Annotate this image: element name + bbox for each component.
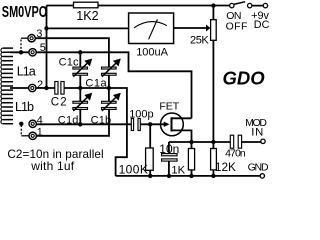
- terminal 2: [29, 84, 36, 91]
- svg-text:100uA: 100uA: [136, 47, 168, 59]
- svg-text:L1a: L1a: [17, 64, 36, 78]
- terminal 1: [29, 132, 36, 139]
- variable capacitor C1d: [73, 93, 92, 111]
- transistor FET: [161, 113, 184, 136]
- svg-text:SM0VPO: SM0VPO: [2, 3, 47, 20]
- capacitor 470n: [230, 135, 241, 148]
- wire FET drain lead: [172, 117, 192, 119]
- junction 10n bottom / ground rail: [167, 174, 171, 178]
- junction C1c-C1d / C2 row: [78, 86, 82, 90]
- svg-text:FET: FET: [159, 100, 179, 112]
- terminal 3: [28, 35, 35, 42]
- junction C1c top: [78, 50, 82, 54]
- wire 12K bottom lead: [212, 170, 214, 176]
- resistor 100K body: [146, 148, 154, 170]
- svg-text:GND: GND: [248, 162, 269, 174]
- junction FET source / 1K top: [189, 140, 193, 144]
- wire meter feed: [47, 27, 129, 29]
- svg-text:IN: IN: [251, 126, 264, 138]
- wire FET source lead: [172, 130, 192, 142]
- svg-text:470n: 470n: [225, 147, 246, 159]
- junction 1K bottom / ground rail: [189, 174, 193, 178]
- wire left vertical from 1K2 down to C2 row: [46, 6, 48, 89]
- wire source row: [169, 141, 261, 143]
- junction 25K bottom / 12K top: [211, 140, 215, 144]
- svg-text:12K: 12K: [215, 160, 236, 174]
- wire 10n bottom lead: [168, 162, 170, 176]
- svg-text:100K: 100K: [119, 163, 149, 177]
- terminal GND: [260, 174, 264, 178]
- junction 100K bottom / ground rail: [148, 174, 152, 178]
- wire C1c leads: [79, 52, 81, 88]
- svg-text:3: 3: [36, 28, 42, 40]
- dashed gang link top (terminals 3-5): [21, 37, 28, 39]
- svg-text:10n: 10n: [159, 142, 179, 156]
- variable capacitor C1c: [73, 59, 92, 77]
- resistor 25K body: [211, 20, 217, 41]
- svg-text:C1d: C1d: [58, 115, 79, 127]
- svg-text:C1a: C1a: [85, 78, 107, 90]
- potentiometer arrow 25K: [206, 25, 210, 32]
- svg-text:1K2: 1K2: [76, 9, 98, 23]
- svg-text:1K: 1K: [171, 164, 185, 176]
- switch S1: [230, 2, 268, 8]
- terminal MOD IN: [261, 139, 265, 143]
- svg-text:100p: 100p: [129, 108, 153, 120]
- wire 1K leads: [191, 142, 193, 176]
- svg-text:2: 2: [37, 79, 43, 91]
- resistor 1K body: [188, 149, 194, 170]
- wire ground rail: [116, 175, 261, 177]
- svg-text:4: 4: [37, 115, 43, 127]
- meter M1 100uA: [129, 13, 174, 44]
- svg-text:1: 1: [37, 127, 43, 139]
- junction supply drop / C2 row: [44, 86, 48, 90]
- wire circle3 to C1a top: [35, 38, 109, 67]
- wire C1a bottom lead: [108, 76, 110, 89]
- junction C1a-C1b / C2 row: [107, 86, 111, 90]
- svg-text:5: 5: [40, 42, 46, 54]
- terminal 5: [29, 49, 36, 56]
- svg-text:25K: 25K: [190, 34, 209, 46]
- junction meter feed / supply drop: [44, 26, 48, 30]
- svg-text:C1b: C1b: [91, 115, 112, 127]
- svg-text:C1c: C1c: [59, 56, 79, 68]
- resistor 12K body: [211, 149, 217, 170]
- wire 10n top lead: [168, 142, 170, 154]
- wire 100K leads: [149, 124, 151, 176]
- variable capacitor C1a: [102, 59, 121, 77]
- wire C2 row: [10, 88, 127, 176]
- junction 12K bottom / ground rail: [211, 174, 215, 178]
- junction supply rail / 25K top: [211, 3, 215, 7]
- coil L1: [3, 48, 13, 124]
- svg-text:L1b: L1b: [15, 100, 34, 114]
- resistor 1K2: [74, 2, 99, 8]
- svg-text:DC: DC: [254, 19, 270, 31]
- capacitor 100p: [131, 119, 140, 131]
- svg-text:GDO: GDO: [223, 67, 266, 88]
- junction 100K top / gate row: [148, 122, 152, 126]
- wire gate row from circle4 to FET: [36, 123, 168, 125]
- capacitor C2: [55, 82, 64, 95]
- junction gang link 1 on L1b bottom wire: [19, 122, 23, 126]
- variable capacitor C1b: [102, 93, 121, 111]
- dashed gang link bottom (terminals 4-1): [20, 125, 22, 136]
- junction gang link 3 on L1a top wire: [19, 50, 23, 54]
- wire 25K bottom lead down to 12K: [212, 40, 214, 148]
- svg-text:C2: C2: [51, 96, 68, 108]
- svg-text:OFF: OFF: [226, 20, 248, 32]
- junction C1d bottom / gate row: [78, 122, 82, 126]
- wire top rail from 1K2 corner to switch: [47, 5, 264, 7]
- wire 25K top lead: [212, 6, 214, 20]
- wire C1d leads: [79, 88, 81, 124]
- wire meter to 25K arrow: [174, 27, 207, 29]
- wire C1b top lead: [108, 88, 110, 101]
- svg-text:with 1uf: with 1uf: [30, 159, 74, 173]
- capacitor 10n: [162, 154, 178, 161]
- wire circle5 row to drain: [10, 52, 192, 118]
- terminal 4: [29, 120, 36, 127]
- wire circle1 row to C1b bottom: [36, 110, 109, 136]
